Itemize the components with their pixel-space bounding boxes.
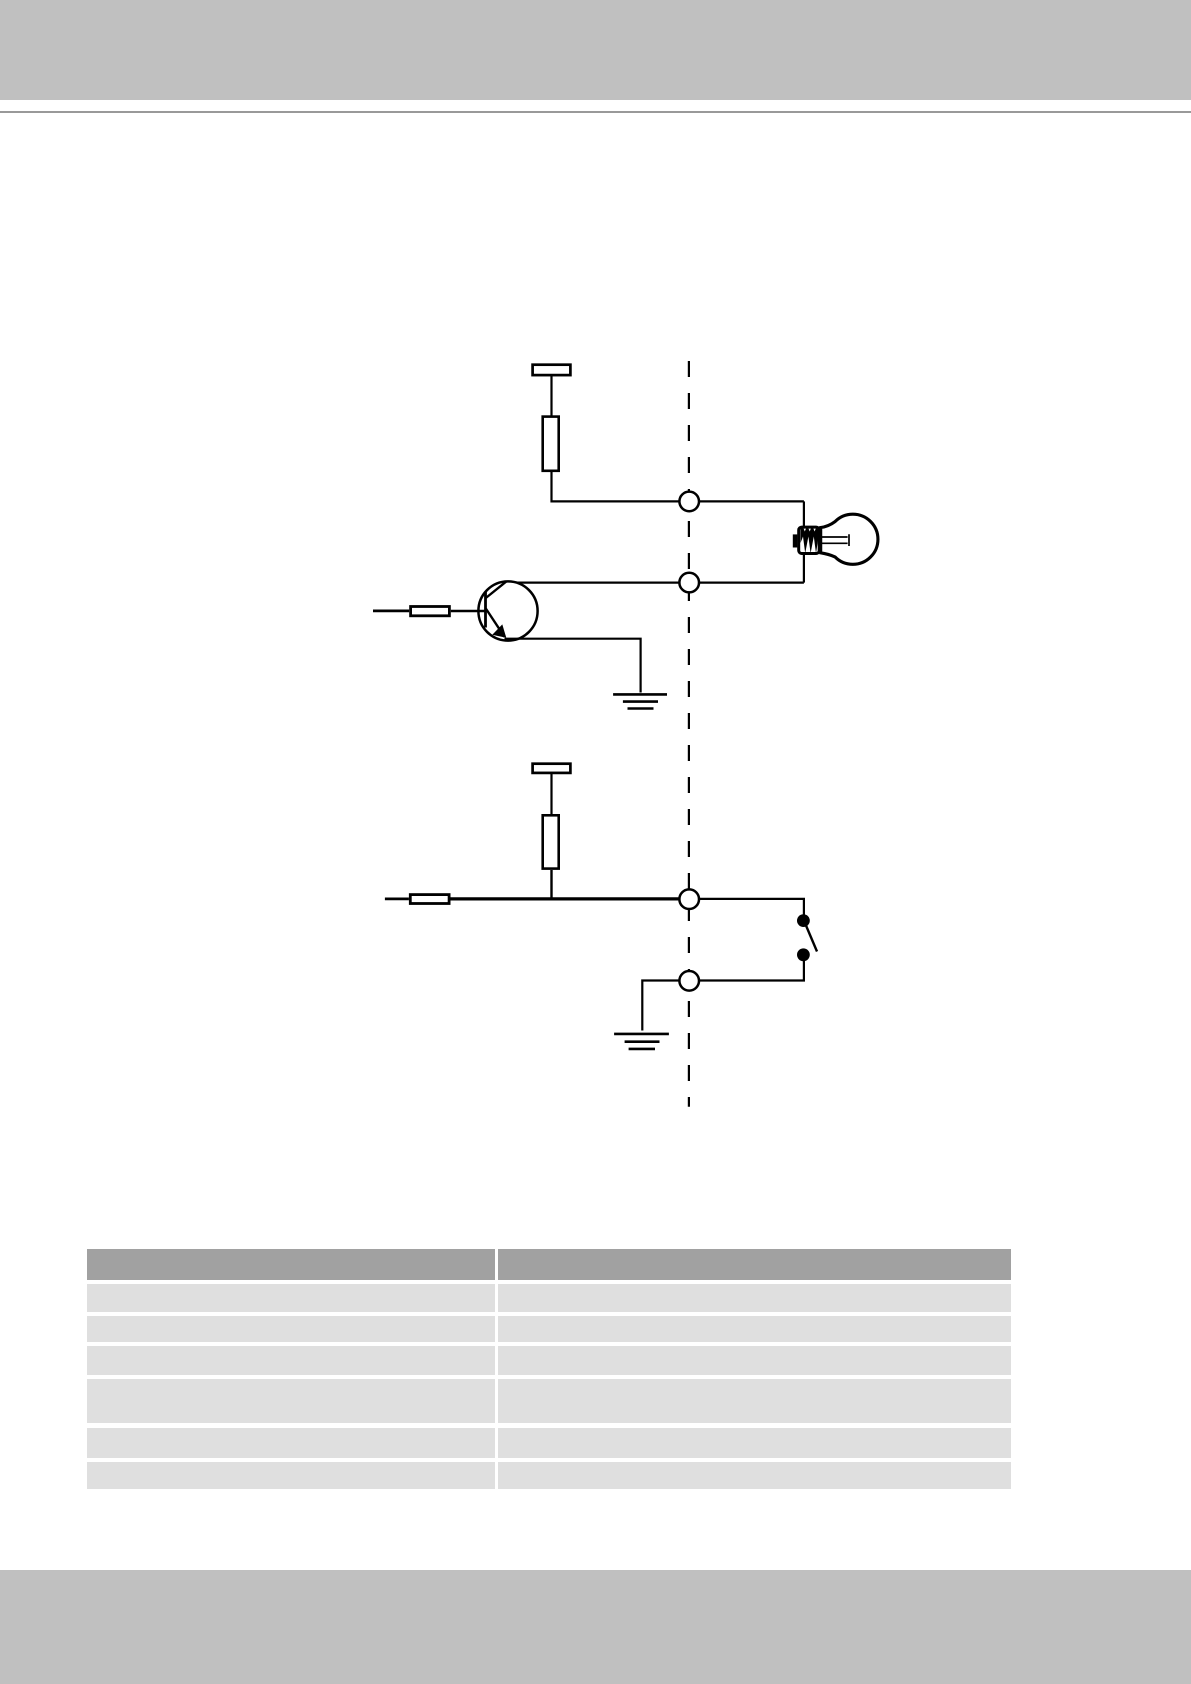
transistor Q1 collector stroke bbox=[486, 581, 507, 598]
lamp LP1 screw base bbox=[799, 527, 820, 553]
node I/O 2 bbox=[679, 573, 699, 593]
wire: node I/O 4 to ground drop bbox=[642, 981, 689, 1031]
wire: bar2 to resistor R3 bbox=[550, 774, 552, 815]
power rail bar 1 (top circuit) bbox=[533, 365, 571, 375]
transistor Q1 emitter stroke bbox=[486, 609, 505, 637]
wire: base lead bbox=[451, 610, 486, 612]
wire: R4 to node I/O 3 (bold) bbox=[451, 897, 690, 900]
wire: emitter to ground bbox=[505, 639, 641, 693]
resistor R4 (horizontal) bbox=[410, 895, 449, 904]
table row 3 bbox=[87, 1346, 495, 1375]
switch SW1 top contact bbox=[797, 914, 810, 927]
footer band bbox=[0, 1570, 1191, 1684]
node I/O 4 bbox=[679, 971, 699, 991]
header band bbox=[0, 0, 1191, 100]
table row 5 bbox=[87, 1428, 495, 1458]
power rail bar 2 (bottom circuit) bbox=[533, 764, 571, 773]
transistor Q1 body bbox=[478, 581, 537, 640]
resistor R2 (base, horizontal) bbox=[411, 607, 450, 616]
table row 1 bbox=[87, 1284, 495, 1312]
transistor Q1 emitter arrowhead bbox=[492, 624, 506, 637]
wire: down to lamp base bbox=[803, 501, 805, 526]
lamp LP1 glass bulb bbox=[821, 514, 878, 564]
ground GND2 bbox=[614, 1034, 669, 1049]
table row 4 bbox=[87, 1379, 495, 1424]
wire: input lead to R4 bbox=[385, 898, 409, 901]
wire: node I/O 3 to switch bbox=[689, 899, 804, 915]
ground GND1 bbox=[613, 694, 667, 708]
wire: collector rail through node I/O 2 to lamp bbox=[506, 581, 804, 583]
table row 6 bbox=[87, 1462, 495, 1489]
node I/O 1 bbox=[679, 492, 699, 512]
resistor R3 (vertical) bbox=[543, 815, 559, 868]
switch SW1 blade bbox=[806, 926, 817, 952]
lamp LP1 screw threads bbox=[801, 528, 819, 554]
wire: input lead to R2 bbox=[373, 610, 409, 613]
wire: bar1 to resistor R1 bbox=[550, 376, 552, 417]
wire: R3 down to input rail bbox=[550, 870, 552, 899]
table row 2 bbox=[87, 1316, 495, 1342]
transistor Q1 base bar bbox=[484, 592, 487, 628]
dashed camera/external boundary line bbox=[688, 361, 690, 1107]
wire: R1 down and right to node I/O 1 bbox=[552, 472, 804, 501]
lamp LP1 contact tip bbox=[793, 534, 798, 547]
wire: lamp base to collector rail bbox=[803, 555, 805, 583]
header rule bbox=[0, 111, 1191, 113]
lamp LP1 filament bbox=[821, 534, 849, 546]
switch SW1 bottom contact bbox=[797, 948, 810, 961]
resistor R1 (vertical) bbox=[543, 417, 559, 471]
node I/O 3 bbox=[679, 889, 699, 909]
table header row bbox=[87, 1249, 495, 1280]
wire: switch to bottom rail bbox=[689, 961, 804, 981]
